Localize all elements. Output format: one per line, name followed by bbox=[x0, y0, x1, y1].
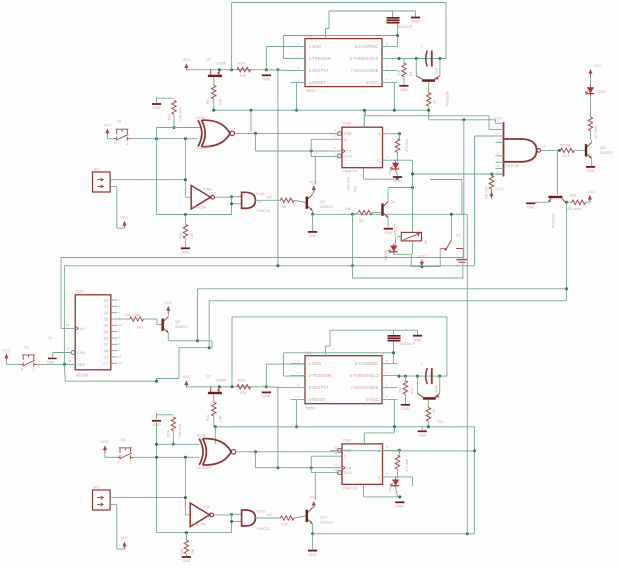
svg-text:AUDIO-P: AUDIO-P bbox=[400, 342, 416, 346]
transistor Q8 PN2222A (horiz, inverted) bbox=[548, 196, 565, 203]
wire R23 bottom bbox=[172, 431, 174, 444]
svg-text:Q1: Q1 bbox=[206, 58, 211, 62]
svg-text:GND: GND bbox=[396, 505, 404, 509]
wire VCC to LED3 bbox=[590, 76, 592, 85]
ground (Q3) bbox=[308, 231, 317, 238]
wire ENA cap stub bbox=[52, 353, 54, 358]
svg-text:R8: R8 bbox=[206, 100, 210, 104]
power VCC (555-1 rail) bbox=[184, 63, 188, 70]
svg-text:10K ohms: 10K ohms bbox=[125, 313, 141, 317]
wire net A riser x=464 bbox=[463, 120, 465, 258]
svg-text:1-GND: 1-GND bbox=[309, 44, 322, 49]
svg-text:11: 11 bbox=[119, 355, 122, 359]
svg-text:14: 14 bbox=[66, 323, 70, 327]
svg-text:GND: GND bbox=[414, 338, 422, 342]
svg-text:2N2222: 2N2222 bbox=[320, 205, 333, 209]
wire AND3 input B stub bbox=[232, 521, 242, 523]
svg-text:2-TRIGGER: 2-TRIGGER bbox=[309, 56, 331, 61]
svg-text:IC9B: IC9B bbox=[343, 438, 352, 442]
wire AND1 output bbox=[255, 199, 280, 201]
wire CLR2 to VCC pull bbox=[314, 473, 316, 501]
wire right riser x=474 (bottom) bbox=[473, 427, 475, 534]
svg-text:555N: 555N bbox=[306, 89, 315, 93]
switch S1 bbox=[440, 240, 463, 249]
ground (LED1) bbox=[393, 176, 402, 183]
junction top rail riser bbox=[230, 68, 233, 71]
wire AND8 input stub 3 bbox=[496, 135, 504, 137]
svg-text:R10: R10 bbox=[354, 186, 358, 192]
AND gate IC2A 74HC11 bbox=[242, 192, 256, 208]
wire net A to 4017 CLK bbox=[60, 258, 62, 329]
wire S1 right down bbox=[462, 249, 464, 259]
svg-text:IC5A: IC5A bbox=[203, 187, 212, 191]
wire 555-2 left pin 3 stub bbox=[291, 387, 306, 389]
wire Q5 emitter bbox=[387, 218, 389, 228]
wire Q1 base down bbox=[213, 77, 215, 85]
svg-text:IC4: IC4 bbox=[306, 34, 312, 38]
power VCC (R18) bbox=[588, 195, 592, 202]
svg-text:5-CONTROL: 5-CONTROL bbox=[355, 361, 379, 366]
power VCC (JP2) bbox=[122, 221, 126, 228]
resistor R20 10K bbox=[212, 402, 216, 416]
wire inverter2 out bbox=[214, 514, 231, 516]
resistor R3 1K bbox=[427, 93, 431, 107]
wire XOR2 output to FF2 PRE bbox=[236, 451, 336, 453]
wire XOR2 upper input bbox=[157, 443, 200, 445]
wire 555-2 pin2 stub bbox=[284, 375, 306, 377]
svg-text:Q5: Q5 bbox=[104, 330, 109, 334]
svg-text:K1.2: K1.2 bbox=[563, 154, 570, 158]
wire FF2 D stub bbox=[330, 455, 342, 457]
resistor R11 10K bbox=[183, 225, 187, 239]
ground (R12 top) bbox=[152, 103, 161, 110]
wire pin2 riser (555-2) bbox=[283, 353, 285, 376]
wire Q2 base down bbox=[428, 82, 430, 94]
power VCC (S3) bbox=[4, 354, 8, 361]
junction R23 / XOR2 upper input bbox=[172, 443, 175, 446]
svg-text:CO: CO bbox=[103, 362, 109, 366]
power VCC (R14) bbox=[489, 192, 493, 199]
resistor R4 10K bbox=[402, 63, 406, 77]
wire loop riser to C7 bbox=[462, 263, 464, 278]
junction FF2 vcc / rail bbox=[393, 425, 396, 428]
wire FF1 gnd run bbox=[364, 178, 398, 180]
wire discharge2 drop bbox=[393, 399, 395, 427]
wire VCC to S4 bbox=[104, 453, 106, 458]
wire 555-1 left pin 1 stub bbox=[291, 46, 306, 48]
svg-text:74HC11: 74HC11 bbox=[256, 208, 271, 213]
svg-text:10K ohm: 10K ohm bbox=[347, 177, 351, 190]
svg-text:12: 12 bbox=[334, 451, 338, 455]
wire Q9 left leg bbox=[416, 376, 418, 393]
svg-text:15: 15 bbox=[68, 359, 72, 363]
svg-text:Q8: Q8 bbox=[104, 349, 109, 353]
ground (Q8) bbox=[526, 202, 535, 209]
junction pin4 / rail y=427 bbox=[295, 425, 298, 428]
switch S2 (pushbutton) bbox=[114, 129, 131, 141]
wire R11 bottom bbox=[184, 239, 186, 248]
transistor Q9 (horiz, discharge 2) bbox=[417, 393, 439, 399]
power VCC (555-2 rail) bbox=[184, 380, 188, 387]
resistor R21 10K bbox=[403, 381, 407, 395]
svg-text:GND: GND bbox=[401, 407, 409, 411]
IC10 4017N decade counter bbox=[71, 295, 111, 370]
junction CLK2 / riser x=278 bbox=[276, 466, 279, 469]
svg-text:3-OUTPUT: 3-OUTPUT bbox=[309, 68, 330, 73]
wire 4017 output Q9 stub bbox=[111, 356, 118, 358]
wire FF2 VCC run bbox=[364, 432, 394, 434]
wire gnd stub (rail427) bbox=[421, 427, 423, 431]
wire FF2 CLK stub bbox=[330, 467, 342, 469]
junction threshold2 / Q legs 1 bbox=[416, 375, 419, 378]
wire R7 to LED1 bbox=[397, 153, 399, 162]
wire AND8 input stub 5 bbox=[496, 155, 504, 157]
junction riser / rail1 bbox=[565, 287, 568, 290]
inverter IC8 74HC04 bbox=[190, 503, 213, 527]
wire buzzer2 left run bbox=[330, 329, 394, 331]
transistor Q7 (horiz) bbox=[208, 386, 222, 394]
svg-text:10K: 10K bbox=[266, 513, 273, 517]
wire 4017 output Q6 stub bbox=[111, 337, 118, 339]
wire into 555-2 top bbox=[325, 346, 327, 357]
junction v2 corner bbox=[155, 443, 158, 446]
svg-text:CLR: CLR bbox=[344, 470, 352, 475]
junction rail427 / XOR2 riser bbox=[214, 425, 217, 428]
wire to S2 contact bbox=[107, 138, 113, 140]
wire jog bbox=[465, 450, 474, 452]
power VCC (Q4) bbox=[166, 306, 170, 313]
ground (R23 top) bbox=[152, 420, 161, 427]
svg-text:74HC74: 74HC74 bbox=[343, 169, 358, 174]
wire gnd stub bbox=[156, 97, 158, 103]
junction JP3 / inverter2 input bbox=[184, 496, 187, 499]
svg-text:GND: GND bbox=[262, 395, 270, 399]
wire staircase b bbox=[179, 347, 212, 349]
svg-text:VCC: VCC bbox=[164, 301, 172, 305]
wire JP2 pin1 to inverter net bbox=[110, 179, 185, 181]
wire buzzer2 jog bbox=[326, 345, 331, 347]
wire R4 bottom bbox=[403, 77, 405, 85]
wire inverter2 input stub bbox=[185, 514, 190, 516]
resistor R5 10K bbox=[280, 198, 294, 202]
svg-text:PRE: PRE bbox=[344, 131, 352, 136]
junction AND8 out bbox=[558, 149, 561, 152]
buzzer SP2 AUDIO-P bbox=[388, 335, 401, 342]
transistor Q3 2N2222 bbox=[306, 195, 313, 211]
svg-text:Q3: Q3 bbox=[104, 317, 109, 321]
junction staircase / rail2 riser bbox=[208, 346, 211, 349]
svg-text:VCC: VCC bbox=[310, 496, 318, 500]
svg-text:GND: GND bbox=[412, 20, 420, 24]
capacitor C2 (polarized, series) bbox=[426, 51, 432, 67]
wire 555-1 left pin 4 stub bbox=[291, 82, 306, 84]
svg-text:2-TRIGGER: 2-TRIGGER bbox=[309, 373, 331, 378]
svg-text:1000F: 1000F bbox=[216, 61, 227, 65]
power VCC (JP3) bbox=[122, 542, 126, 549]
junction XOR2 output bbox=[254, 450, 257, 453]
wire VCC rail2 y=387 bbox=[186, 386, 266, 388]
wire 4017 output Q10 stub bbox=[111, 362, 118, 364]
wire 555-1 right pin 5 stub bbox=[382, 82, 398, 84]
svg-text:VCC: VCC bbox=[310, 180, 318, 184]
wire rail2 riser x=209 bbox=[208, 301, 210, 348]
wire jog to Q4 base bbox=[156, 319, 158, 325]
svg-text:10K: 10K bbox=[397, 69, 401, 76]
junction Q / R7 bbox=[398, 132, 401, 135]
switch S3 (pushbutton) bbox=[20, 355, 37, 367]
LED3 bbox=[585, 85, 594, 95]
wire AND8 input stub 4 bbox=[496, 141, 504, 143]
wire emitter rail y=214 bbox=[313, 213, 468, 215]
wire Qbar to trimmer bbox=[412, 188, 414, 233]
wire 555-2 right pin 8 stub bbox=[382, 363, 398, 365]
connector JP3 bbox=[93, 490, 111, 510]
wire Q4 base bbox=[157, 324, 162, 326]
svg-text:GND: GND bbox=[309, 553, 317, 557]
wire Q4 collector bbox=[167, 312, 169, 317]
junction bus / XOR1 out riser bbox=[250, 109, 253, 112]
svg-text:GND: GND bbox=[262, 78, 270, 82]
wire CLR to VCC pull bbox=[314, 156, 316, 184]
wire FF2 Q out bbox=[383, 449, 400, 451]
svg-text:R5: R5 bbox=[282, 205, 286, 209]
wire gnd stub 2 bbox=[156, 413, 158, 420]
svg-text:8-VCC: 8-VCC bbox=[366, 80, 378, 85]
switch S4 (pushbutton) bbox=[117, 448, 134, 460]
wire Q4 emitter bbox=[167, 333, 169, 341]
wire drop to net B bbox=[352, 214, 354, 265]
junction Q2out / R26 bbox=[398, 449, 401, 452]
wire bus jog bbox=[365, 110, 367, 116]
resistor R25 10K bbox=[280, 516, 294, 520]
wire net B riser x=474 bbox=[474, 136, 476, 266]
capacitor C5 (polarized, series) bbox=[426, 368, 432, 384]
wire 555-2 left pin 4 stub bbox=[291, 399, 306, 401]
svg-text:10K ohm: 10K ohm bbox=[484, 186, 488, 199]
wire 555-1 right pin 6 stub bbox=[382, 70, 398, 72]
junction Q8 / long riser bbox=[565, 201, 568, 204]
svg-text:10K: 10K bbox=[191, 548, 195, 555]
wire S3 to RES bbox=[37, 363, 64, 365]
svg-text:GND: GND bbox=[394, 179, 402, 183]
junction R24 tap bbox=[185, 531, 188, 534]
wire rail y=427 bbox=[214, 426, 475, 428]
wire emitter rail y=534 bbox=[313, 533, 475, 535]
junction rail / gnd bbox=[265, 68, 268, 71]
wire FF2 VCC riser bbox=[393, 427, 395, 433]
wire AND8 input stub 8 bbox=[496, 173, 504, 175]
ground (buzzer) bbox=[411, 17, 420, 24]
wire FF2 gnd run bbox=[364, 496, 398, 498]
svg-text:IC9A: IC9A bbox=[343, 122, 352, 126]
wire ENA pin bbox=[53, 352, 71, 354]
svg-text:1K: 1K bbox=[432, 99, 436, 104]
wire gnd to R23 top bbox=[157, 414, 174, 416]
svg-text:470 ohm: 470 ohm bbox=[405, 459, 409, 472]
wire R22 to rail bbox=[427, 422, 429, 427]
wire 555-2 right pin 5 stub bbox=[382, 399, 398, 401]
svg-text:R12: R12 bbox=[168, 114, 172, 120]
svg-text:R19: R19 bbox=[240, 391, 246, 395]
wire control loop 2 bbox=[284, 352, 394, 354]
junction R8 / bus bbox=[212, 109, 215, 112]
resistor R22 1K bbox=[426, 408, 430, 422]
svg-text:GND: GND bbox=[527, 206, 535, 210]
svg-text:VCC: VCC bbox=[182, 375, 190, 379]
wire 555-2 right pin 7 stub bbox=[382, 375, 398, 377]
resistor R6 10K bbox=[358, 210, 372, 214]
wire RES rail y=381 bbox=[65, 380, 156, 382]
flip-flop IC9A 74HC74 (top) bbox=[337, 127, 382, 168]
junction CLK2 row bbox=[310, 466, 313, 469]
wire 555-1 pin4 stub bbox=[297, 82, 306, 84]
svg-text:8-VCC: 8-VCC bbox=[366, 397, 378, 402]
wire threshold row bbox=[398, 58, 447, 60]
wire FF2 Qbar out bbox=[383, 476, 413, 478]
svg-text:Q: Q bbox=[377, 448, 380, 453]
wire JP2 pin2 down bbox=[116, 187, 118, 229]
svg-text:10: 10 bbox=[119, 323, 123, 327]
wire FF1 Qbar out bbox=[383, 159, 413, 161]
wire AND8 input stub 2 bbox=[496, 129, 504, 131]
svg-text:ohms: ohms bbox=[237, 379, 246, 383]
svg-text:VCC: VCC bbox=[182, 58, 190, 62]
wire FF1 gnd stub bbox=[363, 168, 365, 180]
wire buzzer1 left drop bbox=[328, 11, 330, 29]
wire loop y=278 bbox=[353, 277, 463, 279]
wire XOR1 output to FF1 PRE bbox=[235, 132, 337, 134]
wire R24 bottom bbox=[185, 554, 187, 556]
wire Q7 base down bbox=[213, 394, 215, 402]
flip-flop IC9B 74HC74 (bottom) bbox=[337, 444, 382, 485]
wire CLK pin bbox=[61, 327, 75, 329]
svg-text:PN2222A: PN2222A bbox=[446, 91, 450, 106]
svg-text:2N2222: 2N2222 bbox=[320, 521, 333, 525]
svg-text:VCC: VCC bbox=[594, 64, 602, 68]
svg-text:10K: 10K bbox=[345, 207, 352, 211]
svg-text:Q4: Q4 bbox=[104, 324, 109, 328]
wire AND8 input stub 1 bbox=[496, 122, 504, 124]
wire Q6 collector bbox=[591, 140, 593, 143]
wire JP3 pin2 bbox=[110, 503, 117, 505]
wire buzzer2 drop bbox=[329, 330, 331, 346]
wire R3 to bus bbox=[428, 107, 430, 120]
svg-text:Q: Q bbox=[377, 131, 380, 136]
wire inverter input stub bbox=[185, 196, 191, 198]
junction net B / riser x=278 bbox=[276, 264, 279, 267]
svg-text:Q: Q bbox=[377, 158, 380, 163]
wire FF2 PRE stub bbox=[330, 449, 339, 451]
wire JP3 pin1 to inverter2 bbox=[110, 497, 185, 499]
wire gnd stub (buzzer) bbox=[415, 11, 417, 17]
svg-text:Q1: Q1 bbox=[104, 305, 109, 309]
svg-text:Q4: Q4 bbox=[175, 320, 180, 324]
svg-text:VCC: VCC bbox=[496, 188, 504, 192]
svg-text:GND: GND bbox=[384, 231, 392, 235]
wire Q5 collector to Qbar net bbox=[388, 187, 412, 189]
svg-text:D: D bbox=[344, 137, 347, 142]
junction discharge / bus bbox=[393, 109, 396, 112]
wire R5 to Q3 base bbox=[294, 200, 305, 202]
svg-text:10uF: 10uF bbox=[435, 385, 439, 393]
wire rail1 riser x=197.5 bbox=[197, 289, 199, 341]
svg-text:1000F: 1000F bbox=[216, 379, 227, 383]
LED1 bbox=[390, 161, 399, 171]
wire R6 left jog bbox=[353, 213, 359, 215]
wire JP3 pin2 down bbox=[116, 504, 118, 549]
XOR gate IC7A CD4077 bbox=[199, 439, 236, 465]
wire staircase d bbox=[157, 378, 180, 380]
ground (LED2) bbox=[395, 501, 404, 508]
wire to VCC arrow bbox=[117, 227, 125, 229]
wire to AND8 pin2 bbox=[366, 115, 490, 117]
wire net A rail y=257.5 bbox=[61, 257, 464, 259]
wire 4017 output Q3 stub bbox=[111, 318, 118, 320]
wire Q3out to R13 bbox=[117, 318, 130, 320]
svg-text:Q7: Q7 bbox=[206, 375, 211, 379]
wire 555-2 right pin 6 stub bbox=[382, 387, 398, 389]
wire FF1 D stub bbox=[330, 138, 342, 140]
wire buzzer2 to control pin bbox=[393, 342, 395, 365]
resistor R8 10K bbox=[212, 85, 216, 99]
wire FF1 VCC stub bbox=[363, 110, 365, 127]
wire to FF2 D bbox=[311, 455, 330, 457]
junction JP2 / inverter input bbox=[184, 178, 187, 181]
wire gnd to R12 top bbox=[157, 97, 175, 99]
svg-text:S4: S4 bbox=[121, 438, 126, 442]
wire R21 top bbox=[404, 376, 406, 381]
wire Qbar2 down bbox=[412, 477, 414, 486]
wire Q4 emitter run bbox=[168, 340, 212, 342]
wire R13 out bbox=[144, 318, 158, 320]
wire 4017 output Q5 stub bbox=[111, 331, 118, 333]
svg-text:Q5: Q5 bbox=[390, 200, 395, 204]
AND gate IC11 74HC30 bbox=[504, 122, 541, 177]
wire S1 left down bbox=[439, 249, 441, 267]
svg-text:IC6: IC6 bbox=[306, 351, 312, 355]
wire AND1 input riser bbox=[231, 197, 233, 215]
wire feedback vertical x=156 bbox=[156, 128, 158, 215]
svg-text:13: 13 bbox=[66, 347, 70, 351]
wire FF2 CLR stub bbox=[330, 472, 339, 474]
junction S4 / inverter2 riser bbox=[184, 456, 187, 459]
wire S2 to XOR1 lower input (net N1) bbox=[131, 138, 198, 140]
svg-text:10K: 10K bbox=[219, 415, 223, 422]
trimmer R9 bbox=[401, 232, 421, 241]
junction threshold / Q2 right leg bbox=[438, 57, 441, 60]
ground (rail) bbox=[262, 74, 271, 81]
inverter IC5A 74HC04 bbox=[191, 185, 214, 209]
svg-text:R4: R4 bbox=[409, 72, 413, 76]
wire S4 to XOR2 lower input bbox=[134, 456, 199, 458]
wire D2 bottom bbox=[393, 253, 395, 254]
junction threshold / Q2 left leg bbox=[415, 57, 418, 60]
wire RES down bbox=[63, 364, 66, 381]
junction RES rail / staircase bbox=[155, 380, 158, 383]
svg-text:R6: R6 bbox=[359, 219, 363, 223]
wire XOR2 out down bbox=[255, 452, 257, 468]
wire AND3 input A stub bbox=[232, 513, 242, 515]
wire inverter out to AND1 bbox=[215, 196, 231, 198]
junction inverter out bbox=[230, 195, 233, 198]
wire rail to FF2 PRE bbox=[336, 450, 474, 452]
wire feedback vertical 2 bbox=[156, 421, 158, 533]
wire to FF2 CLK bbox=[256, 467, 331, 469]
svg-text:Q6: Q6 bbox=[600, 146, 605, 150]
svg-text:R20: R20 bbox=[206, 415, 210, 421]
wire VCC to S2 bbox=[106, 136, 108, 139]
wire to 555-2 pin1 bbox=[266, 363, 305, 365]
